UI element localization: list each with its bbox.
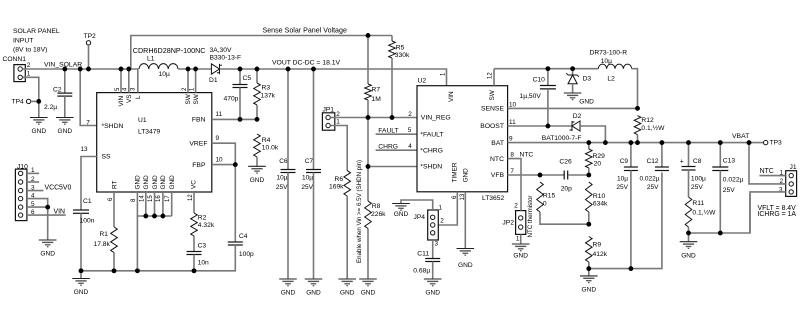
- svg-text:C4: C4: [239, 233, 248, 240]
- svg-text:SW: SW: [193, 93, 200, 104]
- capacitor C13 0.022u 25V: [719, 143, 721, 167]
- svg-text:JP4: JP4: [414, 214, 426, 221]
- wire J10 pin2 stub: [27, 181, 39, 183]
- wire bottom bus R11 to C13 to J1 pin3: [689, 194, 751, 233]
- svg-text:9: 9: [216, 135, 220, 142]
- wire D2 anode to BAT net: [580, 126, 605, 143]
- svg-text:C7: C7: [305, 158, 314, 165]
- junction R15 on VFB: [538, 173, 543, 178]
- svg-text:14: 14: [139, 195, 145, 202]
- wire L2 to R12 top: [632, 69, 638, 109]
- svg-text:R5: R5: [396, 45, 405, 52]
- junction TP2 on rail: [86, 67, 91, 72]
- svg-text:C12: C12: [647, 158, 659, 165]
- diode D2 BAT1000-7-F: [571, 121, 573, 131]
- capacitor C9 10u 25V: [630, 143, 632, 167]
- U1 SW pins 2 and 1 stubs: [187, 69, 189, 93]
- svg-text:VOUT DC-DC = 18.1V: VOUT DC-DC = 18.1V: [272, 60, 341, 67]
- resistor R5 330k from sense line: [391, 36, 393, 42]
- svg-text:226k: 226k: [371, 211, 386, 218]
- svg-text:JP2: JP2: [502, 220, 514, 227]
- svg-text:Sense Solar Panel Voltage: Sense Solar Panel Voltage: [263, 26, 347, 34]
- ground GND (C11): [424, 278, 442, 280]
- wire JP4 pin3 to C11: [432, 240, 434, 259]
- wire J1 pin3 to ground bus: [750, 192, 786, 233]
- wire R7/R5 node down to SHDN net: [367, 118, 369, 202]
- svg-text:NTC: NTC: [520, 152, 534, 159]
- svg-text:R9: R9: [593, 241, 602, 248]
- svg-text:VBAT: VBAT: [732, 133, 749, 140]
- svg-text:2.2µ: 2.2µ: [44, 104, 57, 111]
- svg-text:10: 10: [509, 102, 517, 109]
- svg-text:ICHRG = 1A: ICHRG = 1A: [758, 211, 797, 218]
- capacitor C6 10u 25V: [287, 69, 289, 170]
- svg-text:C26: C26: [559, 159, 572, 166]
- svg-text:1: 1: [27, 71, 31, 78]
- svg-text:FBN: FBN: [192, 117, 206, 124]
- svg-text:2: 2: [408, 111, 412, 118]
- svg-text:GND: GND: [135, 175, 142, 190]
- svg-text:GND: GND: [169, 175, 176, 190]
- svg-text:VIN_REG: VIN_REG: [421, 115, 451, 122]
- svg-text:NTC: NTC: [490, 156, 504, 163]
- zener diode D3: [572, 69, 574, 75]
- U1 pin 5 VIN stub: [120, 69, 122, 93]
- svg-text:11: 11: [216, 111, 223, 118]
- svg-text:10.0k: 10.0k: [262, 145, 279, 152]
- capacitor C7 10u 25V: [313, 69, 315, 170]
- svg-text:2: 2: [514, 202, 518, 209]
- ground GND (D3): [564, 92, 582, 94]
- resistor R7 1M: [367, 36, 369, 85]
- svg-text:1: 1: [336, 119, 340, 126]
- op-amp U1 LT3479 body: [97, 93, 212, 192]
- wire sense riser from rail: [131, 36, 392, 70]
- resistor R15 0: [537, 182, 544, 212]
- wire U2 SENSE pin 10 net: [508, 107, 638, 109]
- net label CHRG wire: [376, 149, 417, 151]
- wire rail to U1 SHDN pin 7: [80, 69, 97, 126]
- svg-text:100n: 100n: [80, 218, 95, 225]
- svg-text:R6: R6: [335, 176, 344, 183]
- svg-text:0.1,½W: 0.1,½W: [692, 209, 716, 217]
- ground GND (J10): [39, 239, 57, 241]
- capacitor C26 20p in VFB line: [563, 171, 565, 180]
- svg-text:LT3652: LT3652: [482, 195, 504, 202]
- svg-text:GND: GND: [74, 289, 89, 296]
- svg-text:GND: GND: [394, 211, 409, 218]
- ground GND (JP2): [512, 243, 530, 245]
- svg-text:R1: R1: [100, 231, 109, 238]
- svg-text:BAT: BAT: [491, 140, 504, 147]
- op-amp U2 LT3652 body: [417, 86, 508, 192]
- svg-text:VIN: VIN: [448, 91, 455, 102]
- junction J1 pin2 on VBAT: [747, 140, 752, 145]
- svg-text:12: 12: [488, 72, 494, 79]
- resistor R4 10.0k: [254, 134, 261, 157]
- svg-text:C11: C11: [417, 251, 429, 258]
- wire J10 pin1 stub: [27, 172, 39, 174]
- svg-text:GND: GND: [152, 175, 159, 190]
- svg-text:FAULT: FAULT: [378, 127, 398, 134]
- U2 pin 12 SW riser: [493, 69, 495, 86]
- wire TIMER pin 6 to JP4 pin 2: [438, 192, 457, 225]
- svg-text:SW: SW: [489, 89, 496, 100]
- wire FBN net pin 11: [212, 118, 257, 120]
- capacitor C10 1u 50V: [547, 69, 549, 86]
- svg-text:25V: 25V: [616, 184, 628, 191]
- wire JP2 pin1 to ground: [520, 234, 522, 244]
- svg-text:1µ,50V: 1µ,50V: [520, 93, 542, 100]
- svg-text:CDRH6D28NP-100NC: CDRH6D28NP-100NC: [133, 46, 206, 55]
- wire U1 GND pins bus: [136, 192, 138, 216]
- svg-text:0.022µ: 0.022µ: [639, 175, 659, 182]
- svg-text:TIMER: TIMER: [451, 162, 458, 182]
- wire JP1 pin1 down to R6: [330, 126, 347, 171]
- svg-text:L1: L1: [147, 55, 155, 62]
- svg-text:BOOST: BOOST: [480, 123, 504, 130]
- junction R5 on VIN_REG: [390, 115, 395, 120]
- svg-text:BAT1000-7-F: BAT1000-7-F: [542, 135, 582, 142]
- svg-text:412k: 412k: [593, 251, 608, 258]
- junction C13 bottom: [718, 231, 723, 236]
- svg-text:GND: GND: [306, 290, 321, 297]
- wire U2 BOOST pin 11 net: [508, 125, 572, 127]
- ground GND (U1 rail): [80, 271, 82, 279]
- wire J1 pin2 to VBAT: [749, 143, 786, 184]
- resistor R1 17.8k on RT pin: [113, 192, 115, 227]
- ground GND (JP4): [392, 203, 410, 205]
- junction dots overlay: [36, 33, 751, 273]
- resistor R9 412k: [586, 237, 593, 263]
- svg-text:L: L: [135, 95, 142, 99]
- svg-text:GND: GND: [361, 290, 376, 297]
- svg-text:SW: SW: [185, 93, 192, 104]
- svg-text:CONN1: CONN1: [3, 56, 27, 63]
- svg-text:VCC5V0: VCC5V0: [45, 184, 72, 191]
- capacitor C5 470p: [239, 69, 241, 85]
- wire TP4 to ground node: [31, 100, 39, 102]
- junction TP4 node: [36, 99, 41, 104]
- svg-text:10: 10: [216, 156, 224, 163]
- capacitor C1 100n: [73, 209, 89, 211]
- svg-text:C9: C9: [620, 158, 629, 165]
- svg-text:10µ: 10µ: [159, 71, 170, 78]
- wire L1 to D1 anode: [178, 68, 211, 70]
- resistor R11 0.1 halfW: [685, 197, 692, 227]
- svg-text:GND: GND: [340, 290, 355, 297]
- junction R29 on BAT: [586, 140, 591, 145]
- wire CONN1 pin2 to VIN_SOLAR rail: [22, 68, 138, 70]
- svg-text:FBP: FBP: [192, 162, 206, 169]
- resistor R29 20: [588, 143, 590, 149]
- svg-text:SS: SS: [102, 154, 112, 161]
- svg-text:C3: C3: [198, 243, 207, 250]
- svg-text:100p: 100p: [239, 251, 254, 258]
- junction R11 bottom bus: [686, 231, 691, 236]
- junction R10/R9 node: [586, 222, 591, 227]
- junction R12 on BAT: [635, 140, 640, 145]
- svg-text:GND: GND: [425, 290, 440, 297]
- svg-text:C6: C6: [279, 158, 288, 165]
- junction C9 bottom: [629, 266, 634, 271]
- ground GND (R4): [248, 165, 266, 167]
- wire U2 VFB pin 7 net: [508, 174, 565, 176]
- wire U2 NTC pin 8 to JP2: [508, 159, 521, 211]
- svg-text:C1: C1: [83, 198, 92, 205]
- wire VOUT rail D1 cathode to U2 VIN: [220, 69, 447, 86]
- svg-text:GND: GND: [582, 287, 597, 294]
- svg-text:470p: 470p: [224, 96, 239, 103]
- ground GND (R6): [338, 278, 356, 280]
- svg-text:GND: GND: [513, 253, 528, 260]
- junction SHDN net: [366, 164, 371, 169]
- svg-text:*SHDN: *SHDN: [420, 164, 442, 171]
- svg-text:C13: C13: [723, 158, 736, 165]
- junction SHDN riser on rail: [78, 67, 83, 72]
- capacitor C11 0.68u: [425, 258, 440, 260]
- svg-text:(8V to 18V): (8V to 18V): [13, 47, 47, 54]
- junction R9 bottom: [586, 266, 591, 271]
- svg-text:169k: 169k: [329, 184, 344, 191]
- svg-text:C5: C5: [243, 75, 252, 82]
- svg-text:25V: 25V: [691, 184, 703, 191]
- resistor R10 634k: [586, 182, 593, 212]
- svg-text:11: 11: [509, 119, 516, 126]
- svg-text:TP3: TP3: [770, 140, 783, 147]
- ground GND (C6): [279, 278, 297, 280]
- svg-text:R12: R12: [641, 117, 654, 124]
- svg-text:R3: R3: [262, 85, 271, 92]
- wire JP4 pin1 to ground: [401, 200, 433, 210]
- junction J10 pin5/pin4: [45, 205, 50, 210]
- svg-text:SENSE: SENSE: [481, 106, 505, 113]
- junction C2 on rail: [62, 67, 67, 72]
- svg-text:17.8k: 17.8k: [94, 241, 111, 248]
- svg-text:U2: U2: [418, 78, 427, 85]
- capacitor C4 100p: [228, 241, 243, 243]
- resistor R2 4.32k on VC pin: [193, 192, 195, 213]
- svg-text:R7: R7: [372, 87, 381, 94]
- svg-text:0.1,½W: 0.1,½W: [641, 124, 665, 132]
- resistor R12 0.1 halfW: [634, 116, 641, 135]
- svg-text:R4: R4: [262, 137, 271, 144]
- svg-text:VS: VS: [126, 94, 133, 103]
- resistor R6 169k: [344, 171, 351, 196]
- U1 pin 4 VS stub: [128, 69, 130, 93]
- svg-text:DR73-100-R: DR73-100-R: [590, 50, 628, 57]
- junction C1 bottom / ground rail: [79, 268, 84, 273]
- resistor R3 137k: [256, 69, 258, 83]
- svg-text:RT: RT: [111, 181, 118, 189]
- svg-text:*CHRG: *CHRG: [420, 147, 443, 154]
- ground GND (C2): [56, 117, 74, 119]
- capacitor C8 100u 25V polarized: [688, 143, 690, 167]
- wire J1 pin1 NTC stub: [759, 175, 785, 177]
- svg-text:R2: R2: [198, 215, 207, 222]
- ground GND (R8): [359, 278, 377, 280]
- svg-text:GND: GND: [250, 177, 265, 184]
- svg-text:GND: GND: [160, 175, 167, 190]
- ground GND (R9): [580, 275, 598, 277]
- svg-text:2: 2: [27, 62, 31, 69]
- junction SENSE/L2/R12: [635, 106, 640, 111]
- svg-text:VIN: VIN: [54, 209, 66, 216]
- svg-text:20: 20: [594, 161, 602, 168]
- diode D1 B330-13-F: [211, 64, 219, 74]
- svg-text:5: 5: [408, 127, 412, 134]
- svg-text:GND: GND: [458, 262, 473, 269]
- svg-text:R15: R15: [543, 192, 556, 199]
- wire U2 SHDN pin 3 net: [368, 166, 417, 168]
- svg-text:4.32k: 4.32k: [198, 222, 215, 229]
- svg-text:1: 1: [439, 205, 443, 212]
- svg-text:D1: D1: [209, 77, 218, 84]
- ground GND (C7): [305, 278, 323, 280]
- svg-text:8: 8: [510, 152, 514, 159]
- wire SW net U2 pin 12 to L2: [494, 68, 598, 70]
- svg-text:330k: 330k: [395, 52, 410, 59]
- svg-text:NTC thermistor: NTC thermistor: [527, 196, 534, 238]
- wire SS pin 13 to C1: [81, 157, 97, 211]
- wire GND bus down to ground rail: [136, 216, 138, 271]
- svg-text:R11: R11: [692, 200, 704, 207]
- svg-text:L2: L2: [607, 76, 615, 83]
- capacitor C2 2.2u: [64, 69, 66, 93]
- svg-text:GND: GND: [579, 99, 594, 106]
- svg-text:GND: GND: [32, 128, 47, 135]
- svg-text:VFB: VFB: [491, 172, 505, 179]
- U1 pin 3 L stub: [137, 69, 139, 93]
- svg-text:U1: U1: [138, 117, 147, 124]
- svg-text:10µ: 10µ: [277, 174, 288, 181]
- wire CONN1 pin1 down to ground node: [22, 77, 38, 117]
- svg-text:R10: R10: [593, 193, 606, 200]
- svg-text:D2: D2: [573, 113, 582, 120]
- svg-text:TP4: TP4: [12, 99, 25, 106]
- wire TP2 to rail: [88, 45, 90, 69]
- svg-text:VREF: VREF: [189, 140, 207, 147]
- capacitor C12 0.022u 25V: [661, 143, 663, 167]
- svg-text:10n: 10n: [198, 260, 209, 267]
- svg-text:GND: GND: [58, 128, 73, 135]
- svg-text:B330-13-F: B330-13-F: [210, 54, 242, 61]
- junction D2 on BAT: [603, 140, 608, 145]
- svg-text:INPUT: INPUT: [13, 37, 33, 44]
- wire J10 pin6 VIN: [27, 214, 66, 216]
- svg-text:13: 13: [81, 146, 89, 153]
- svg-text:+: +: [680, 159, 684, 166]
- svg-text:25V: 25V: [301, 184, 313, 191]
- svg-text:*SHDN: *SHDN: [102, 123, 124, 130]
- svg-text:20p: 20p: [561, 185, 572, 192]
- wire J10 pin3 VCC5V0: [27, 190, 44, 192]
- wire JP1 pin2 VIN_REG net to U2 pin 2: [330, 117, 417, 119]
- svg-text:C8: C8: [693, 158, 702, 165]
- svg-text:J1: J1: [790, 164, 797, 171]
- svg-text:TP2: TP2: [84, 33, 97, 40]
- svg-text:GND: GND: [281, 290, 296, 297]
- svg-text:7: 7: [86, 119, 90, 126]
- svg-text:25V: 25V: [723, 187, 735, 194]
- capacitor C3 10n: [187, 251, 202, 253]
- svg-text:3: 3: [435, 240, 439, 247]
- svg-text:1M: 1M: [372, 96, 382, 103]
- svg-text:R8: R8: [372, 203, 381, 210]
- junction sense line R7 tap: [366, 33, 371, 38]
- svg-text:3A,30V: 3A,30V: [210, 47, 232, 54]
- svg-text:0: 0: [543, 200, 547, 207]
- ground GND (R11): [680, 241, 698, 243]
- svg-text:25V: 25V: [647, 184, 659, 191]
- svg-text:1: 1: [516, 236, 520, 243]
- svg-text:C10: C10: [533, 77, 546, 84]
- svg-text:LT3479: LT3479: [138, 129, 160, 136]
- net label FAULT wire: [376, 133, 417, 135]
- junction FBP-VREF node: [233, 162, 238, 167]
- svg-text:17: 17: [165, 195, 171, 202]
- svg-text:634k: 634k: [593, 201, 608, 208]
- svg-text:9: 9: [509, 135, 513, 142]
- svg-text:10µ: 10µ: [302, 174, 313, 181]
- wire FBP pin 10: [212, 164, 236, 166]
- svg-text:15: 15: [148, 195, 154, 202]
- junction R7 on VIN_REG: [366, 115, 371, 120]
- svg-text:R29: R29: [593, 153, 606, 160]
- wire J10 pin4 to ground drop: [27, 199, 48, 240]
- svg-text:VC: VC: [191, 180, 198, 189]
- svg-text:*FAULT: *FAULT: [420, 131, 443, 138]
- svg-text:0.022µ: 0.022µ: [723, 176, 744, 183]
- svg-text:7: 7: [510, 168, 514, 175]
- svg-text:0.68µ: 0.68µ: [413, 267, 430, 274]
- svg-text:Enable when Vin >= 6.5V (SHDN: Enable when Vin >= 6.5V (SHDN pin): [356, 160, 363, 263]
- ground GND (U2 pin13): [457, 248, 475, 250]
- svg-text:137k: 137k: [261, 93, 276, 100]
- svg-text:GND: GND: [681, 252, 696, 259]
- svg-text:GND: GND: [40, 251, 55, 258]
- wire VREF pin 9 to C4: [212, 143, 236, 242]
- svg-text:12: 12: [188, 194, 194, 201]
- test point TP3: [764, 140, 768, 144]
- svg-text:16: 16: [156, 195, 162, 202]
- svg-text:SOLAR PANEL: SOLAR PANEL: [13, 28, 60, 35]
- wire J10 pin5 stub: [27, 206, 48, 208]
- wire bottom bus R9 to C9 C12: [589, 173, 662, 269]
- svg-text:CHRG: CHRG: [378, 143, 398, 150]
- junction C10 on BOOST: [546, 124, 551, 129]
- svg-text:10µ: 10µ: [617, 175, 628, 182]
- ground GND (CONN1): [30, 117, 48, 119]
- wire BAT net U2 pin 9 to TP3: [508, 142, 764, 144]
- svg-text:C2: C2: [53, 87, 62, 94]
- junction C26/R29/R10 node: [586, 173, 591, 178]
- resistor R8 226k: [365, 201, 372, 229]
- svg-text:NTC: NTC: [760, 168, 774, 175]
- connector CONN1: [14, 65, 25, 82]
- svg-text:2: 2: [440, 217, 444, 224]
- svg-text:GND: GND: [143, 175, 150, 190]
- svg-text:25V: 25V: [276, 184, 288, 191]
- wire U2 pin13 GND: [464, 192, 466, 249]
- svg-text:D3: D3: [583, 76, 592, 83]
- svg-text:VIN: VIN: [118, 95, 125, 106]
- svg-text:100µ: 100µ: [691, 175, 706, 182]
- svg-text:4: 4: [408, 143, 412, 150]
- svg-text:GND: GND: [462, 168, 469, 183]
